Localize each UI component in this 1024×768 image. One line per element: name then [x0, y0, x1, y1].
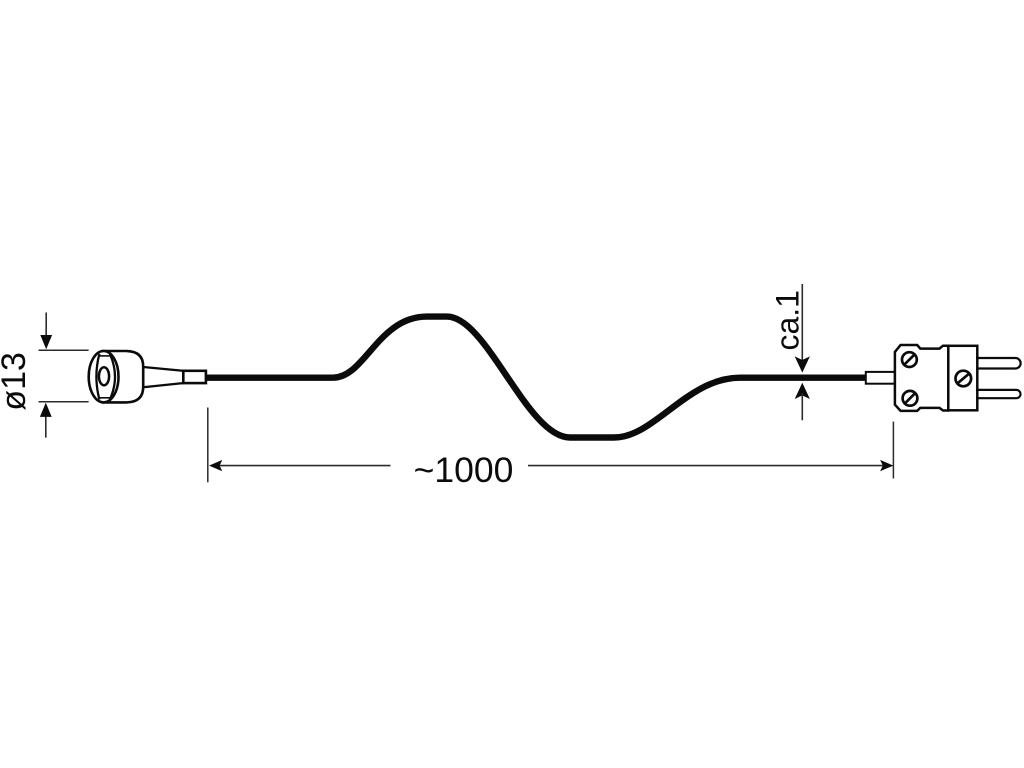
probe neck taper [142, 367, 184, 388]
dim ca.1 lower arrow line [801, 393, 803, 420]
dim ca.1 upper arrow [795, 356, 810, 372]
screw S1 [902, 352, 917, 367]
screw S3 [956, 371, 972, 387]
dim ~1000 left extension line [207, 408, 209, 483]
connector cable sleeve [866, 372, 895, 384]
dim ø13 top arrow [40, 313, 52, 350]
probe face band bottom chord [100, 397, 110, 399]
dim ~1000 line left segment [214, 465, 391, 467]
probe ferrule [183, 371, 206, 383]
connector pin bottom [976, 390, 1021, 398]
probe face band top chord [100, 355, 110, 357]
dim ø13 top extension line [39, 349, 89, 351]
dim ca.1 lower arrow [795, 383, 810, 399]
dim ø13 bottom extension line [39, 401, 89, 403]
dim ~1000 left arrow [209, 460, 222, 471]
cable (wavy probe lead) [207, 317, 866, 438]
svg-text:ca.1: ca.1 [770, 290, 806, 350]
dim ø13 bottom arrow [40, 403, 52, 438]
dim ~1000 right arrow [880, 460, 893, 471]
svg-text:ø13: ø13 [0, 352, 33, 411]
probe face outer ellipse [89, 351, 119, 402]
screw S2 [903, 391, 918, 406]
probe face band left arc [96, 354, 99, 400]
probe face center hole [99, 367, 109, 385]
connector pin top [976, 358, 1021, 369]
connector left body [895, 345, 948, 411]
dim ~1000 right extension line [892, 422, 894, 479]
dim ca.1 upper arrow line [801, 284, 803, 362]
probe face band right arc [110, 354, 115, 400]
svg-text:~1000: ~1000 [414, 450, 514, 490]
probe body [103, 351, 143, 402]
connector right block fill [948, 346, 977, 411]
connector right block outline [948, 346, 977, 411]
dim ~1000 line right segment [528, 465, 886, 467]
